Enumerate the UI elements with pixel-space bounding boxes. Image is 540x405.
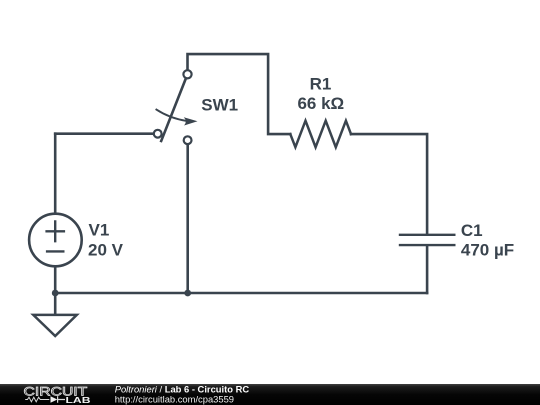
wire V1 bottom to rail [54,266,57,293]
capacitor C1 top plate [400,234,454,236]
switch arrowhead [184,117,198,125]
ground [33,315,77,336]
svg-text:SW1: SW1 [201,96,238,115]
capacitor C1 bottom plate [400,244,454,246]
wire left vertical top [54,134,57,214]
svg-text:V1: V1 [89,221,110,240]
switch terminal top [183,70,191,78]
switch SW1 blade [161,79,185,141]
svg-text:LAB: LAB [66,395,91,405]
logo diode [51,396,58,403]
wire switch-top to top-right corner down to resistor [188,54,291,134]
wire bottom rail [55,292,427,295]
junction dot left [52,290,59,297]
wire switch bottom terminal down [186,145,189,293]
logo resistor zigzag [25,397,49,402]
svg-text:20 V: 20 V [88,241,124,260]
ground stub [54,293,57,314]
wire capacitor bottom to bottom rail [426,246,429,293]
svg-text:http://circuitlab.com/cpa3559: http://circuitlab.com/cpa3559 [115,394,234,405]
switch terminal bottom [184,136,192,144]
svg-text:470 µF: 470 µF [461,241,514,260]
switch terminal left [154,130,162,138]
svg-text:R1: R1 [310,74,332,93]
voltage source V1 [29,214,82,267]
resistor R1 [290,121,351,148]
junction dot middle [184,290,191,297]
wire resistor to capacitor top [351,134,427,234]
wire left to switch [55,132,153,135]
svg-text:C1: C1 [461,221,483,240]
switch SW1 arc [156,110,186,121]
svg-text:66 kΩ: 66 kΩ [297,94,344,113]
